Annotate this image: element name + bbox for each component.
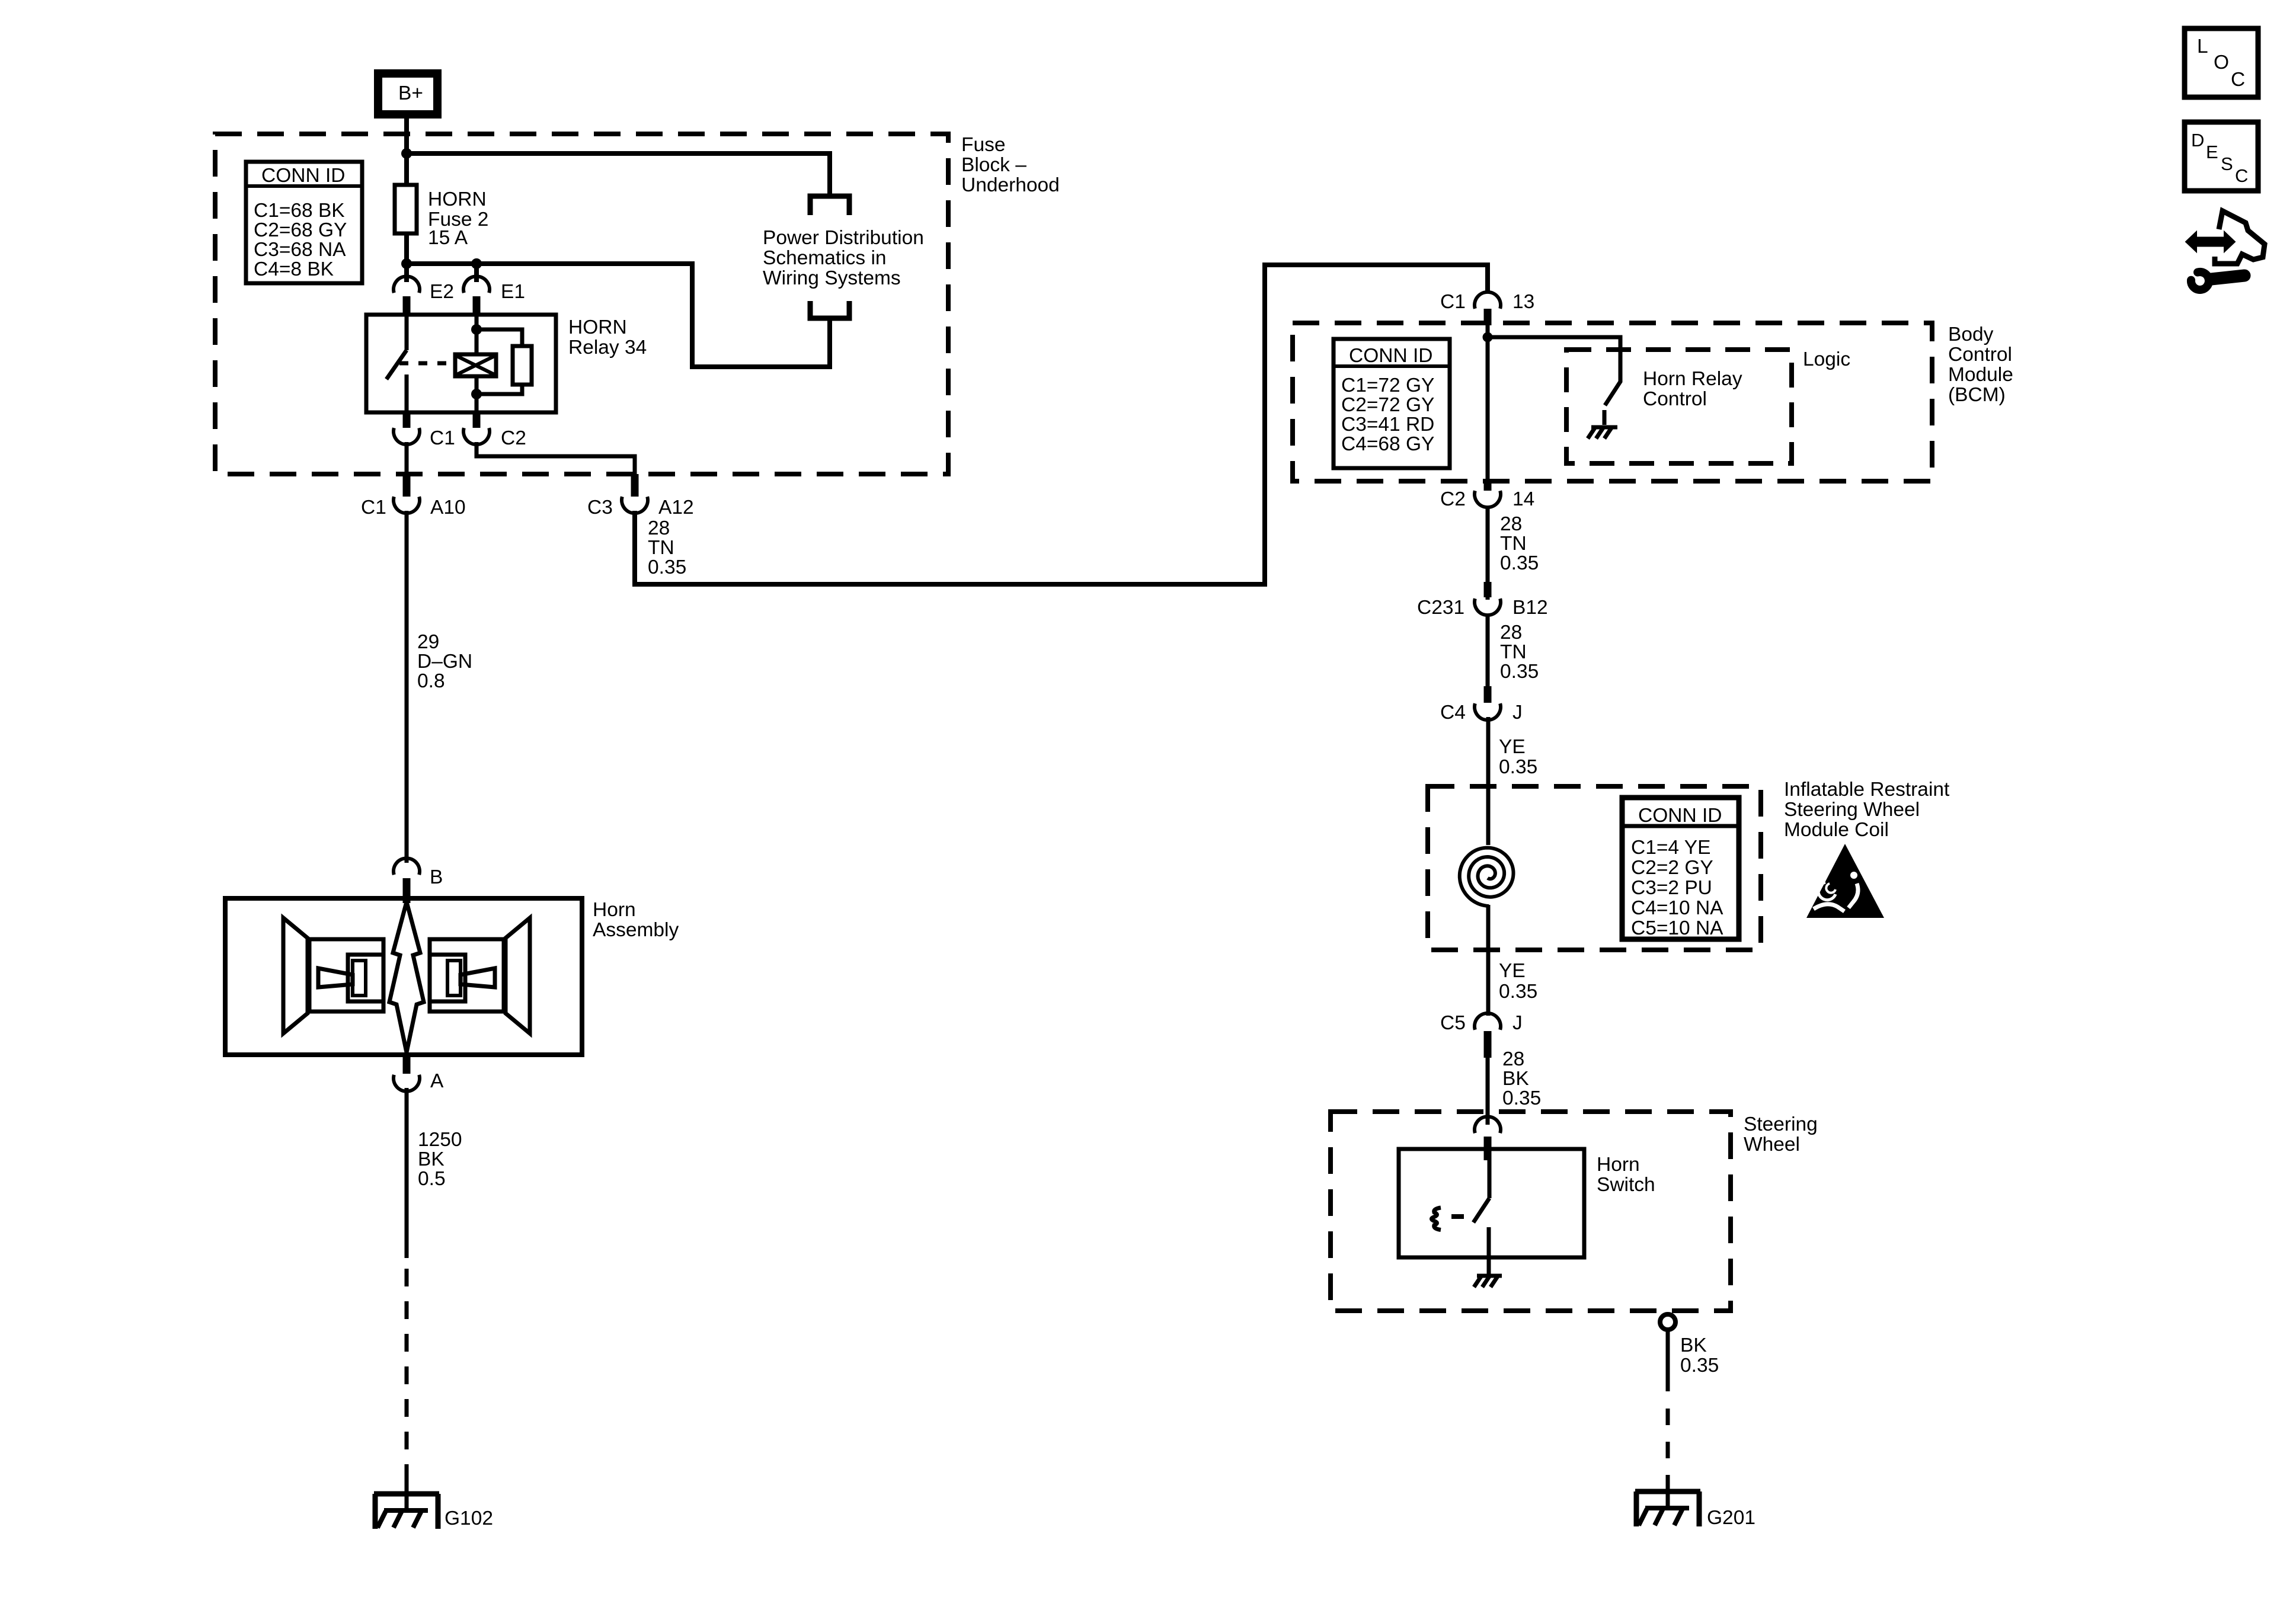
label YE 0.35 (into coil)	[1499, 736, 1537, 778]
svg-text:C5: C5	[1440, 1012, 1466, 1034]
wire dashed to G201	[1666, 1395, 1670, 1489]
svg-text:Inflatable Restraint: Inflatable Restraint	[1784, 779, 1950, 801]
wire C2 to C231	[1486, 506, 1490, 600]
svg-text:C2=72 GY: C2=72 GY	[1341, 394, 1434, 416]
svg-text:0.35: 0.35	[648, 556, 686, 578]
logic dashed box	[1566, 350, 1792, 463]
label Power Distribution Schematics in Wiring Systems	[763, 227, 924, 289]
svg-text:Horn: Horn	[593, 899, 636, 921]
svg-text:C2=2 GY: C2=2 GY	[1631, 857, 1713, 879]
svg-text:HORN: HORN	[568, 316, 627, 338]
BCM dashed border	[1293, 323, 1932, 481]
svg-text:CONN ID: CONN ID	[261, 165, 345, 187]
svg-text:Schematics in: Schematics in	[763, 247, 887, 269]
label Steering Wheel	[1744, 1113, 1818, 1156]
label 29 D-GN 0.8	[417, 631, 472, 692]
wire branch to E1 and power distribution return	[407, 264, 830, 367]
svg-text:CONN ID: CONN ID	[1349, 345, 1432, 367]
svg-text:Wiring Systems: Wiring Systems	[763, 267, 901, 289]
svg-text:C4=8 BK: C4=8 BK	[254, 258, 334, 280]
svg-text:A: A	[430, 1070, 444, 1092]
svg-text:C2=68 GY: C2=68 GY	[254, 219, 347, 241]
svg-text:Underhood: Underhood	[961, 174, 1060, 196]
svg-text:C1=68 BK: C1=68 BK	[254, 200, 345, 222]
ground symbol (horn switch)	[1474, 1276, 1502, 1287]
relay coil wires	[475, 315, 479, 412]
svg-text:0.35: 0.35	[1680, 1355, 1719, 1377]
svg-text:0.35: 0.35	[1500, 661, 1539, 683]
connector B (horn assembly)	[394, 858, 443, 903]
svg-text:C3=2 PU: C3=2 PU	[1631, 877, 1712, 899]
label 28 TN 0.35 (BCM out)	[1500, 513, 1539, 574]
svg-text:Assembly: Assembly	[593, 919, 679, 941]
svg-text:O: O	[2214, 52, 2229, 73]
svg-text:J: J	[1512, 702, 1523, 724]
label 28 TN 0.35 (A12)	[648, 517, 686, 578]
svg-text:Body: Body	[1948, 324, 1994, 345]
splice ring (steering wheel ground lead)	[1660, 1314, 1675, 1330]
svg-text:C1: C1	[430, 427, 455, 449]
svg-text:Horn Relay: Horn Relay	[1643, 368, 1742, 390]
svg-text:Module Coil: Module Coil	[1784, 819, 1889, 841]
svg-text:D: D	[2191, 130, 2204, 151]
relay coil	[455, 354, 496, 376]
connector table CONN ID (coil)	[1622, 798, 1739, 939]
label 1250 BK 0.5	[418, 1129, 462, 1190]
svg-text:C1=4 YE: C1=4 YE	[1631, 837, 1710, 859]
HORN Relay 34 box	[366, 315, 647, 412]
svg-text:TN: TN	[1500, 533, 1527, 555]
svg-text:C3=41 RD: C3=41 RD	[1341, 414, 1434, 436]
svg-text:Power Distribution: Power Distribution	[763, 227, 924, 249]
ground G102	[374, 1494, 493, 1529]
label Horn Relay Control	[1643, 368, 1742, 410]
wire A12 to BCM (28 TN 0.35)	[635, 265, 1488, 584]
svg-text:0.35: 0.35	[1499, 981, 1537, 1003]
svg-text:YE: YE	[1499, 736, 1526, 758]
svg-text:C2: C2	[1440, 488, 1466, 510]
svg-text:BK: BK	[1680, 1334, 1707, 1356]
label 28 TN 0.35 (body harness)	[1500, 622, 1539, 683]
ground G201	[1635, 1491, 1755, 1529]
wire E1 drop	[474, 264, 479, 282]
svg-text:28: 28	[1502, 1048, 1524, 1070]
svg-text:Block –: Block –	[961, 154, 1027, 176]
svg-text:Logic: Logic	[1803, 348, 1850, 370]
svg-text:C2: C2	[501, 427, 526, 449]
label 28 BK 0.35	[1502, 1048, 1541, 1109]
svg-text:Control: Control	[1948, 344, 2012, 366]
svg-text:E2: E2	[430, 281, 454, 303]
svg-text:0.35: 0.35	[1500, 552, 1539, 574]
svg-text:28: 28	[1500, 513, 1522, 535]
wire coil to C5	[1486, 905, 1491, 1016]
wire C5 to steering wheel	[1486, 1058, 1490, 1125]
horn switch box	[1399, 1149, 1655, 1257]
wire B+ to fuse	[404, 119, 409, 185]
svg-text:0.5: 0.5	[418, 1168, 446, 1190]
svg-text:BK: BK	[1502, 1068, 1529, 1090]
svg-text:Relay 34: Relay 34	[568, 337, 647, 359]
schematic navigation icon (double arrow, body outline, wrench)	[2186, 211, 2265, 290]
svg-text:C1: C1	[361, 497, 386, 518]
svg-text:Switch: Switch	[1597, 1174, 1655, 1196]
svg-text:C4=68 GY: C4=68 GY	[1341, 433, 1434, 455]
svg-text:0.35: 0.35	[1499, 756, 1537, 778]
label Fuse Block - Underhood	[961, 134, 1060, 196]
svg-text:15 A: 15 A	[428, 227, 468, 249]
node below fuse	[401, 258, 412, 269]
power distribution stub brackets	[810, 196, 849, 318]
svg-text:C1=72 GY: C1=72 GY	[1341, 375, 1434, 396]
svg-text:C: C	[2231, 69, 2245, 91]
wire A10 down to horn	[405, 511, 409, 863]
svg-text:TN: TN	[648, 537, 674, 559]
relay resistor	[477, 329, 532, 394]
node BCM logic tap	[1483, 332, 1493, 343]
node E1 tap	[471, 258, 482, 269]
clockspring coil spiral	[1460, 848, 1514, 906]
svg-text:Horn: Horn	[1597, 1154, 1640, 1176]
svg-text:B: B	[430, 866, 443, 888]
connector C1 13 (BCM)	[1440, 291, 1534, 325]
wire C2 to C3 connector	[477, 442, 635, 474]
svg-text:G102: G102	[445, 1507, 493, 1529]
connector A (horn assembly)	[394, 1055, 444, 1092]
wire branch to power distribution	[407, 153, 830, 196]
svg-text:D–GN: D–GN	[417, 651, 472, 673]
horn assembly box	[225, 898, 679, 1055]
svg-text:14: 14	[1512, 488, 1534, 510]
svg-text:TN: TN	[1500, 641, 1527, 663]
label BK 0.35	[1680, 1334, 1719, 1377]
svg-text:13: 13	[1512, 291, 1534, 313]
wire C1 down through border	[405, 442, 409, 488]
fuse block underhood dashed border	[215, 134, 948, 474]
connector C1 A10	[361, 474, 466, 518]
svg-text:CONN ID: CONN ID	[1638, 805, 1722, 827]
connector E1 (relay)	[463, 276, 525, 316]
svg-text:Module: Module	[1948, 364, 2013, 386]
right horn speaker	[430, 918, 530, 1033]
horn relay control switch	[1488, 337, 1620, 425]
left horn speaker	[283, 918, 383, 1033]
svg-text:HORN: HORN	[428, 188, 487, 210]
connector C4 J (coil)	[1440, 686, 1523, 724]
svg-text:J: J	[1512, 1012, 1523, 1034]
connector C2 14 (BCM)	[1440, 481, 1534, 510]
connector table CONN ID (BCM)	[1334, 339, 1450, 468]
svg-text:C231: C231	[1417, 597, 1464, 619]
svg-text:0.8: 0.8	[417, 670, 445, 692]
svg-text:C1: C1	[1440, 291, 1466, 313]
wire 1250 BK 0.5	[405, 1088, 409, 1258]
svg-text:Fuse: Fuse	[961, 134, 1005, 156]
svg-text:0.35: 0.35	[1502, 1087, 1541, 1109]
label YE 0.35 (out of coil)	[1499, 960, 1537, 1003]
node relay coil bottom	[471, 389, 482, 399]
connector C1 (relay output)	[394, 412, 455, 449]
node relay coil top	[471, 324, 482, 335]
connector C231 B12	[1417, 582, 1548, 619]
steering wheel dashed border	[1331, 1112, 1731, 1311]
wire C231 to C4	[1486, 614, 1490, 687]
svg-text:Wheel: Wheel	[1744, 1134, 1800, 1156]
svg-text:B+: B+	[398, 82, 423, 104]
svg-text:C3=68 NA: C3=68 NA	[254, 239, 346, 261]
svg-text:S: S	[2221, 153, 2233, 174]
battery feed B+ terminal	[378, 73, 437, 114]
connector C2 (relay coil return)	[463, 412, 526, 449]
connector C5 J (coil to horn switch)	[1440, 1012, 1523, 1058]
DESC icon box	[2185, 122, 2258, 191]
svg-text:L: L	[2197, 36, 2208, 57]
wire fuse to relay feed	[404, 233, 409, 282]
svg-text:A12: A12	[658, 497, 694, 518]
wire BCM internal	[1486, 325, 1490, 481]
relay switch contact	[386, 315, 407, 412]
fuse HORN Fuse 2 15 A	[395, 185, 488, 249]
svg-text:BK: BK	[418, 1148, 445, 1170]
svg-text:Steering: Steering	[1744, 1113, 1818, 1135]
svg-text:E1: E1	[501, 281, 525, 303]
svg-text:1250: 1250	[418, 1129, 462, 1151]
relay armature link dashes	[399, 361, 455, 366]
svg-text:29: 29	[417, 631, 439, 653]
horn assembly center star	[389, 902, 424, 1052]
svg-text:C: C	[2235, 165, 2248, 186]
wire BK 0.35 to G201	[1666, 1330, 1670, 1391]
wire dashed to G102	[405, 1258, 409, 1481]
svg-text:28: 28	[648, 517, 670, 539]
svg-text:Steering Wheel: Steering Wheel	[1784, 799, 1920, 821]
svg-text:28: 28	[1500, 622, 1522, 644]
horn switch link dash	[1451, 1214, 1464, 1219]
svg-text:B12: B12	[1512, 597, 1548, 619]
warning triangle SIR	[1806, 844, 1884, 918]
coil module dashed border	[1428, 786, 1761, 950]
svg-text:C3: C3	[587, 497, 613, 518]
svg-text:Control: Control	[1643, 388, 1707, 410]
svg-text:G201: G201	[1707, 1507, 1755, 1529]
svg-text:C4: C4	[1440, 702, 1466, 724]
connector arc (steering wheel entry)	[1475, 1116, 1501, 1160]
horn switch actuator curl	[1432, 1208, 1441, 1230]
svg-text:C4=10 NA: C4=10 NA	[1631, 897, 1723, 919]
node battery junction	[401, 148, 412, 159]
wire C4 to coil	[1486, 717, 1491, 845]
label Inflatable Restraint Steering Wheel Module Coil	[1784, 779, 1950, 841]
svg-text:(BCM): (BCM)	[1948, 384, 2006, 406]
svg-text:C5=10 NA: C5=10 NA	[1631, 917, 1723, 939]
ground symbol (BCM logic)	[1588, 427, 1617, 438]
connector C3 A12	[587, 474, 694, 518]
connector E2 (relay)	[394, 276, 454, 316]
horn switch contact	[1473, 1160, 1489, 1275]
svg-text:A10: A10	[430, 497, 466, 518]
label Body Control Module (BCM)	[1948, 324, 2013, 406]
LOC icon box	[2185, 28, 2258, 97]
svg-text:E: E	[2206, 142, 2218, 162]
connector table CONN ID (fuse block)	[246, 162, 362, 283]
svg-text:YE: YE	[1499, 960, 1526, 982]
